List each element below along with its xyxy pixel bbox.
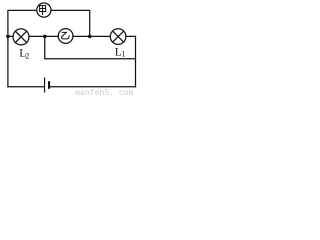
svg-text:1: 1: [122, 50, 126, 59]
svg-text:manfen5. com: manfen5. com: [75, 89, 133, 96]
svg-text:2: 2: [25, 52, 29, 61]
